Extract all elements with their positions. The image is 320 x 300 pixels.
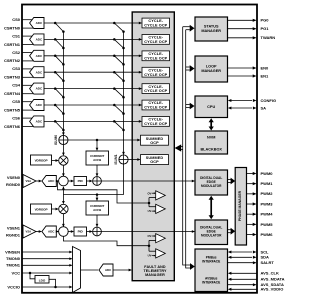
adc current-sense ADC0 — [30, 18, 44, 29]
svg-text:UV: UV — [148, 254, 152, 258]
wire VSEN0 input — [22, 177, 26, 179]
svg-text:BLACKBOX: BLACKBOX — [200, 148, 222, 152]
wire CS5 input — [22, 101, 33, 103]
wire VSEN1 input — [22, 227, 26, 229]
wire ADC6 output to OCP — [44, 120, 141, 122]
node row0 tap B — [113, 22, 116, 25]
svg-text:MANAGER: MANAGER — [145, 273, 165, 277]
wire PWM4 output — [247, 213, 256, 215]
wire PWM0 output — [247, 173, 256, 175]
wire PWM1 output — [247, 183, 256, 185]
amplifier VSA0 — [23, 175, 36, 188]
wire droop0 to summing node — [62, 165, 64, 176]
node VCC tap — [29, 272, 32, 275]
wire CS1 input — [22, 35, 33, 37]
bus branch to cpu — [186, 104, 190, 106]
wire SCL bidirectional — [231, 251, 252, 253]
wire ISUM0 to current ACFB0 — [96, 140, 98, 150]
wire CSRTN6 input — [22, 126, 33, 128]
svg-text:ADC: ADC — [36, 54, 43, 58]
wire ISUM0 to summed OCP — [68, 139, 140, 141]
svg-text:CYCLE-: CYCLE- — [148, 19, 163, 23]
switch row5 to bus ISUM1 — [114, 105, 123, 114]
svg-text:ACFB: ACFB — [93, 158, 101, 162]
svg-text:CYCLE-: CYCLE- — [148, 85, 163, 89]
wire AVS_MDATA input — [231, 278, 257, 280]
svg-text:CS5: CS5 — [12, 99, 21, 104]
svg-text:CSRTN6: CSRTN6 — [4, 124, 21, 129]
wire ADC3 output to OCP — [44, 71, 141, 73]
svg-text:PID: PID — [78, 230, 84, 234]
wire ACFB1 to adder — [96, 215, 98, 226]
adc current-sense ADC2 — [30, 50, 44, 61]
wire bus ISUM1 vertical — [123, 32, 125, 155]
svg-text:NVM: NVM — [207, 136, 215, 140]
adder loop1 — [93, 227, 102, 236]
comparator UV loop0 — [156, 204, 166, 213]
wire ACFB0 to adder — [96, 165, 98, 176]
wire SA bidirectional — [231, 107, 252, 109]
svg-text:CSRTN2: CSRTN2 — [4, 58, 21, 63]
wire ADC0 output to OCP — [44, 22, 141, 24]
wire summing node to PID0 — [68, 180, 73, 182]
svg-text:CYCLE-: CYCLE- — [148, 118, 163, 122]
node row1 tap A — [54, 38, 57, 41]
wire modulators bidirectional — [210, 199, 212, 216]
bus modulator1 to phase manager — [228, 229, 232, 231]
switch row4 to bus ISUM1 — [114, 89, 123, 98]
svg-text:PG1: PG1 — [261, 26, 270, 31]
node row0 tap A — [54, 22, 57, 25]
svg-text:CSRTN3: CSRTN3 — [4, 75, 21, 80]
svg-text:ADC: ADC — [36, 103, 43, 107]
switch row5 to bus ISUM0 — [55, 105, 63, 114]
svg-text:TMON0: TMON0 — [6, 256, 21, 261]
wire AVS_CLK input — [231, 272, 257, 274]
wire PID1 to adder — [87, 231, 92, 233]
svg-text:MODULATOR: MODULATOR — [201, 234, 222, 238]
wire loop0 sense to OV/UV — [58, 181, 150, 203]
wire loop1 to modulator — [101, 231, 194, 233]
svg-text:CYCLE-: CYCLE- — [148, 36, 163, 40]
wire PG1 output — [228, 28, 256, 30]
comparator UV loop1 — [156, 249, 166, 258]
svg-text:SCL: SCL — [261, 249, 270, 254]
switch row0 to bus ISUM0 — [55, 23, 63, 32]
svg-text:PWM1: PWM1 — [261, 181, 274, 186]
svg-text:ISUM0: ISUM0 — [54, 135, 58, 145]
block summed OCP 0 — [141, 135, 169, 145]
svg-text:CS0: CS0 — [12, 17, 21, 22]
wire CSRTN1 input — [22, 44, 33, 46]
node row4 tap B — [113, 87, 116, 90]
adc voltage ADC1 — [42, 226, 56, 237]
svg-text:CYCLE OCP: CYCLE OCP — [144, 24, 167, 28]
wire VSA0 to ADC — [36, 180, 41, 182]
wire AVS_SDATA output — [228, 284, 256, 286]
svg-text:OV: OV — [147, 191, 151, 195]
wire SALRT output — [228, 262, 256, 264]
wire CSRTN2 input — [22, 60, 33, 62]
wire bus ISUM0 vertical — [62, 32, 64, 135]
block PID0 — [74, 177, 87, 186]
node OV/UV loop1 feed — [148, 244, 151, 247]
wire ISUM1 down to junction rail — [123, 164, 125, 195]
wire CONFIG bidirectional — [231, 100, 252, 102]
wire summing node to PID1 — [68, 231, 73, 233]
wire VCC to LDO — [30, 273, 35, 279]
svg-text:PWM6: PWM6 — [261, 232, 274, 237]
switch row0 to bus ISUM1 — [114, 23, 123, 32]
svg-text:TMON1: TMON1 — [6, 263, 21, 268]
svg-text:VDROOP: VDROOP — [35, 207, 48, 211]
summer ISUM1 — [119, 155, 128, 164]
wire SDA bidirectional — [231, 256, 252, 258]
switch row4 to bus ISUM0 — [55, 89, 63, 98]
svg-text:SALRT: SALRT — [261, 260, 275, 265]
wire rail to current ACFB1 — [96, 195, 98, 201]
wire CS3 input — [22, 68, 33, 70]
svg-text:CYCLE OCP: CYCLE OCP — [144, 40, 167, 44]
amplifier VSA1 — [23, 225, 36, 238]
svg-text:ADC: ADC — [48, 230, 55, 234]
block pmbus avsbus interface — [195, 249, 228, 292]
svg-text:OV: OV — [147, 234, 151, 238]
switch row1 to bus ISUM1 — [114, 39, 123, 48]
wire ADC0 to summing node — [56, 180, 58, 182]
svg-text:CYCLE OCP: CYCLE OCP — [144, 122, 167, 126]
wire TWARN output — [228, 37, 256, 39]
adc current-sense ADC4 — [30, 83, 44, 94]
svg-text:AVS_MDATA: AVS_MDATA — [261, 277, 285, 282]
svg-text:ADC: ADC — [36, 21, 43, 25]
node row5 tap A — [54, 104, 57, 107]
svg-text:ADC: ADC — [36, 70, 43, 74]
outer boundary — [22, 5, 257, 293]
adc current-sense ADC1 — [30, 34, 44, 45]
node OV/UV loop0 feed — [148, 202, 151, 205]
block PID1 — [74, 227, 87, 236]
block loop manager — [195, 56, 228, 82]
wire PWM3 output — [247, 203, 256, 205]
comparator OV loop0 — [156, 191, 166, 200]
block cycle-by-cycle OCP 1 — [142, 35, 170, 45]
wire EN0 — [228, 67, 256, 69]
node row3 tap A — [54, 71, 57, 74]
wire CSRTN5 input — [22, 109, 33, 111]
bus modulator0 to phase manager — [228, 179, 232, 181]
svg-text:VINSEN: VINSEN — [5, 249, 20, 254]
svg-text:CYCLE OCP: CYCLE OCP — [144, 106, 167, 110]
svg-text:ISUM1: ISUM1 — [114, 154, 118, 164]
wire TMON0 to mux — [22, 258, 72, 260]
switch row3 to bus ISUM0 — [55, 72, 63, 81]
adc telemetry — [99, 264, 113, 276]
wire ADC2 output to OCP — [44, 55, 141, 57]
wire CS2 input — [22, 52, 33, 54]
svg-text:MANAGER: MANAGER — [201, 29, 221, 33]
svg-text:CS4: CS4 — [12, 83, 21, 88]
svg-text:VCCIO: VCCIO — [7, 284, 20, 289]
block digital dual edge modulator 1 — [195, 220, 228, 245]
wire droop1 to summing node — [62, 214, 64, 227]
svg-text:MANAGER: MANAGER — [201, 69, 221, 73]
bus branch to fault manager — [181, 146, 183, 148]
svg-text:CPU: CPU — [207, 105, 215, 109]
svg-text:AVS_VDDIO: AVS_VDDIO — [261, 287, 284, 292]
svg-text:CSRTN4: CSRTN4 — [4, 91, 21, 96]
node row5 tap B — [113, 104, 116, 107]
svg-text:VDROOP: VDROOP — [35, 158, 48, 162]
node row2 tap A — [54, 55, 57, 58]
wire ADC to fault manager — [113, 269, 131, 271]
svg-text:OCP: OCP — [150, 160, 159, 164]
node row6 tap A — [54, 120, 57, 123]
wire junction rail — [63, 194, 123, 196]
block phase manager — [235, 168, 246, 246]
wire CSRTN3 input — [22, 76, 33, 78]
switch row6 to bus ISUM1 — [114, 121, 123, 130]
wire ADC1 to summing node — [56, 231, 58, 233]
bus branch to status manager — [183, 26, 190, 28]
svg-text:EN1: EN1 — [261, 73, 270, 78]
svg-text:CYCLE-: CYCLE- — [148, 52, 163, 56]
svg-text:TWARN: TWARN — [261, 35, 276, 40]
wire PWM6 output — [247, 234, 256, 236]
svg-text:UV: UV — [148, 209, 152, 213]
bus branch to loop manager — [186, 66, 190, 68]
switch row2 to bus ISUM1 — [114, 56, 123, 65]
wire PG0 output — [228, 19, 256, 21]
wire VINSEN to mux — [22, 251, 72, 253]
svg-text:CONFIG: CONFIG — [261, 98, 277, 103]
summing node loop1 — [59, 227, 69, 237]
svg-text:CS1: CS1 — [12, 33, 21, 38]
wire CS0 input — [22, 19, 33, 21]
wire VDROOP1 to multiplier — [52, 208, 58, 210]
svg-text:VSA: VSA — [26, 179, 32, 183]
block cycle-by-cycle OCP 6 — [142, 117, 170, 127]
wire RGND0 input — [22, 184, 26, 186]
svg-text:ADC: ADC — [36, 38, 43, 42]
switch row2 to bus ISUM0 — [55, 56, 63, 65]
svg-text:CSRTN5: CSRTN5 — [4, 107, 21, 112]
wire CSRTN0 input — [22, 27, 33, 29]
block LDO — [35, 276, 49, 284]
svg-text:AVS_CLK: AVS_CLK — [261, 271, 279, 276]
svg-text:PWM4: PWM4 — [261, 212, 274, 217]
wire LDO to VCCIO line — [49, 279, 56, 287]
wire ISUM1 to summed OCP — [128, 159, 140, 161]
svg-text:PWM5: PWM5 — [261, 222, 274, 227]
wire cpu-nvm bidirectional — [210, 122, 212, 128]
svg-text:CYCLE OCP: CYCLE OCP — [144, 56, 167, 60]
wire ADC4 output to OCP — [44, 88, 141, 90]
svg-text:VSEN1: VSEN1 — [7, 225, 21, 230]
wire VSA1 to ADC — [36, 231, 41, 233]
svg-text:CYCLE OCP: CYCLE OCP — [144, 89, 167, 93]
wire loop1 sense to OV/UV — [63, 236, 149, 245]
svg-text:RGND1: RGND1 — [6, 232, 21, 237]
block cycle-by-cycle OCP 5 — [142, 100, 170, 110]
svg-text:CYCLE-: CYCLE- — [148, 101, 163, 105]
block nvm blackbox — [195, 131, 228, 154]
block VDROOP loop1 — [31, 204, 52, 214]
svg-text:VCC: VCC — [12, 270, 21, 275]
wire PWM5 output — [247, 223, 256, 225]
svg-text:CS3: CS3 — [12, 66, 21, 71]
wire AVS_VDDIO input — [231, 288, 257, 290]
svg-text:INTERFACE: INTERFACE — [202, 260, 220, 264]
svg-text:SA: SA — [261, 105, 267, 110]
wire TMON1 to mux — [22, 264, 72, 266]
wire CSRTN4 input — [22, 93, 33, 95]
block cpu — [195, 96, 228, 118]
multiplier droop loop1 — [59, 204, 68, 213]
svg-text:PID: PID — [78, 179, 84, 183]
svg-text:CSRTN0: CSRTN0 — [4, 25, 21, 30]
node ISUM0 branch — [96, 139, 99, 142]
comparator OV loop1 — [156, 234, 166, 243]
svg-text:CYCLE-: CYCLE- — [148, 68, 163, 72]
wire ADC5 output to OCP — [44, 104, 141, 106]
node row6 tap B — [113, 120, 116, 123]
block cycle-by-cycle OCP 0 — [142, 18, 170, 28]
wire CS6 input — [22, 117, 33, 119]
block cycle-by-cycle OCP 2 — [142, 51, 170, 61]
node row4 tap A — [54, 87, 57, 90]
adder loop0 — [93, 177, 102, 186]
svg-text:LDO: LDO — [39, 278, 46, 282]
svg-text:PWM0: PWM0 — [261, 171, 274, 176]
summing node loop0 — [59, 176, 69, 186]
svg-text:MODULATOR: MODULATOR — [201, 184, 222, 188]
node row3 tap B — [113, 71, 116, 74]
node LDO join — [54, 286, 57, 289]
svg-text:PWM2: PWM2 — [261, 191, 274, 196]
block VDROOP loop0 — [31, 155, 52, 165]
wire CS4 input — [22, 84, 33, 86]
mux telemetry — [73, 247, 81, 293]
svg-text:PHASE MANAGER: PHASE MANAGER — [238, 190, 242, 221]
block cycle-by-cycle OCP 3 — [142, 67, 170, 77]
svg-text:VSA: VSA — [26, 230, 32, 234]
switch row3 to bus ISUM1 — [114, 72, 123, 81]
wire VDROOP0 to multiplier — [52, 160, 58, 162]
svg-text:ADC: ADC — [105, 268, 112, 272]
wire VCC to mux — [22, 272, 72, 274]
wire rail to loop0 summing node — [62, 187, 64, 195]
svg-text:RGND0: RGND0 — [6, 182, 21, 187]
svg-text:SDA: SDA — [261, 255, 270, 260]
block CURRENT ACFB loop0 — [86, 151, 109, 165]
adc current-sense ADC6 — [30, 116, 44, 127]
svg-text:CS6: CS6 — [12, 115, 21, 120]
switch row1 to bus ISUM0 — [55, 39, 63, 48]
svg-text:INTERFACE: INTERFACE — [202, 281, 220, 285]
svg-text:ADC: ADC — [36, 87, 43, 91]
adc current-sense ADC3 — [30, 67, 44, 78]
svg-text:VSEN0: VSEN0 — [7, 175, 21, 180]
svg-text:ADC: ADC — [48, 179, 55, 183]
svg-text:PG0: PG0 — [261, 18, 270, 23]
fault/telemetry manager block body — [132, 12, 174, 281]
svg-text:ACFB: ACFB — [93, 208, 101, 212]
svg-text:CSRTN1: CSRTN1 — [4, 42, 21, 47]
wire RGND1 input — [22, 234, 26, 236]
multiplier droop loop0 — [59, 156, 68, 165]
svg-text:EN0: EN0 — [261, 65, 270, 70]
adc current-sense ADC5 — [30, 100, 44, 111]
svg-text:CYCLE OCP: CYCLE OCP — [144, 73, 167, 77]
block summed OCP 1 — [141, 155, 169, 165]
svg-text:OCP: OCP — [150, 141, 159, 145]
node ACFB1 feed — [96, 193, 99, 196]
switch row6 to bus ISUM0 — [55, 121, 63, 130]
wire loop0 to modulator — [101, 180, 194, 182]
node row2 tap B — [113, 55, 116, 58]
wire rail to multiplier1 — [62, 195, 64, 204]
internal data bus — [183, 27, 191, 265]
wire ISUM0 down to multiplier — [62, 144, 64, 155]
wire PWM2 output — [247, 193, 256, 195]
wire PID0 to adder — [87, 180, 92, 182]
block digital dual edge modulator 0 — [195, 170, 228, 195]
block cycle-by-cycle OCP 4 — [142, 84, 170, 94]
svg-text:PWM3: PWM3 — [261, 201, 274, 206]
svg-text:CS2: CS2 — [12, 50, 21, 55]
wire EN1 — [228, 75, 256, 77]
block CURRENT ACFB loop1 — [86, 201, 109, 215]
wire VCCIO to mux — [22, 286, 72, 288]
block status manager — [195, 17, 228, 41]
wire ADC1 output to OCP — [44, 38, 141, 40]
svg-text:ADC: ADC — [36, 120, 43, 124]
adc voltage ADC0 — [42, 176, 56, 187]
wire mux to ADC — [81, 269, 99, 271]
node row1 tap B — [113, 38, 116, 41]
summer ISUM0 — [59, 135, 68, 144]
